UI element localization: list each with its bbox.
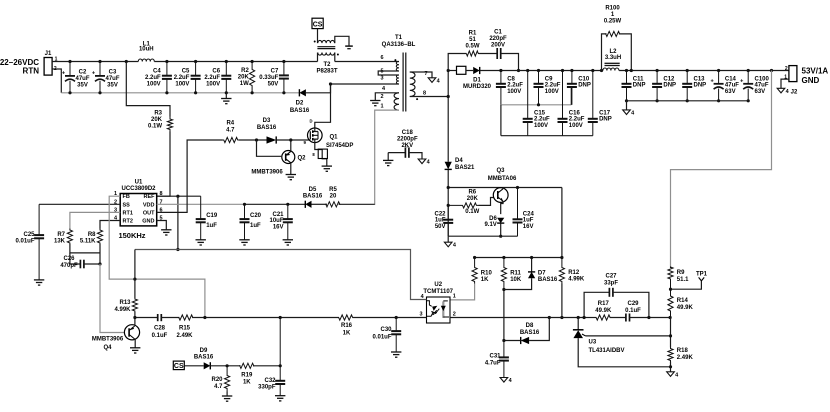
svg-text:BAS16: BAS16 [290,108,310,114]
svg-text:0.5W: 0.5W [465,43,479,49]
junction C11 rail [625,69,628,72]
label TP1 [696,271,708,277]
wire Q2 emitter [290,140,292,151]
diode D8 [521,337,529,344]
label D8 [520,323,540,336]
svg-text:U1: U1 [135,180,143,186]
svg-text:16V: 16V [523,224,534,230]
capacitor C26 [80,260,84,269]
capacitor C2 [62,62,75,93]
svg-text:100V: 100V [175,81,189,87]
svg-text:3: 3 [419,312,422,318]
label D3 [257,118,277,131]
svg-text:C7: C7 [271,69,279,75]
svg-text:2.2uF: 2.2uF [507,83,523,89]
svg-text:C12: C12 [663,76,675,82]
svg-text:47uF: 47uF [105,76,119,82]
svg-text:100V: 100V [534,123,548,129]
svg-text:DNP: DNP [694,83,707,89]
svg-text:8: 8 [160,191,163,197]
wire output cap bus [627,100,749,102]
svg-text:63V: 63V [755,89,766,95]
svg-text:1K: 1K [343,331,351,337]
junction C14 bot [717,99,720,102]
junction D8 riser top [548,316,551,319]
diode D5 [305,201,311,208]
label C12 [663,76,676,88]
label C15 [534,110,550,129]
wire collector line [448,187,562,189]
label R3 [148,111,163,130]
svg-text:R6: R6 [468,190,476,196]
wire main fb line B [161,317,179,319]
capacitor C18 [405,147,409,158]
wire OUT line [157,140,223,212]
capacitor C27 [609,288,613,297]
capacitor C21 [283,204,293,240]
svg-text:T2: T2 [323,62,331,68]
wire C10 corner [570,87,572,105]
svg-text:C29: C29 [627,301,639,307]
J1 pin 1 number [55,57,58,63]
junction C15 rail [526,69,529,72]
svg-text:10uH: 10uH [139,47,154,53]
svg-text:0.01uF: 0.01uF [15,239,34,245]
svg-text:2: 2 [453,312,456,318]
wire R4 to D3 [239,139,267,141]
svg-text:47uF: 47uF [725,83,739,89]
wire collector to divider rail [561,188,563,258]
svg-text:C16: C16 [569,110,581,116]
label R2 [238,68,250,87]
wire T1 pin5-pin3 link [378,71,399,75]
junction R9 bottom [669,288,672,291]
wire main fb line A [135,317,158,319]
capacitor C24 [513,188,523,237]
svg-text:4.99K: 4.99K [114,307,131,313]
shunt regulator U3 [573,330,586,338]
svg-text:CS: CS [174,363,184,370]
label Q2 part [251,170,283,176]
wire bottom cap bus [501,135,593,137]
junction R14 bottom [669,316,672,319]
svg-text:1uF: 1uF [435,218,446,224]
junction pin4 D2 [329,82,332,85]
label C32 [258,378,276,391]
svg-text:35V: 35V [77,82,88,88]
resistor R19 [240,363,254,368]
svg-text:R100: R100 [605,6,620,12]
svg-text:50V: 50V [268,82,279,88]
U2 pin4 number [421,294,425,300]
ground U1 [161,230,171,235]
svg-text:5.11K: 5.11K [80,239,96,245]
svg-text:R16: R16 [341,323,353,329]
svg-text:20: 20 [330,193,337,199]
Q1 body box [318,149,327,158]
svg-text:100V: 100V [507,89,521,95]
junction D8 left [502,339,505,342]
svg-text:49.9K: 49.9K [677,305,694,311]
svg-text:DNP: DNP [578,83,591,89]
svg-text:0.25W: 0.25W [604,18,622,24]
label C26 [60,256,78,269]
svg-text:C18: C18 [402,130,414,136]
svg-text:D: D [309,118,312,123]
label C8 [507,76,523,95]
wire CS to T2 [317,29,319,43]
junction R12 bottom [560,316,563,319]
svg-text:10K: 10K [510,277,522,283]
T1 phase dot primary [394,59,396,61]
svg-text:470pF: 470pF [60,263,78,269]
T1 pin5 number [380,69,383,75]
svg-text:MMBTA06: MMBTA06 [488,176,517,182]
ground C21 [283,240,293,245]
wire R13 top riser [134,250,136,299]
label R6 [467,190,479,202]
svg-text:C13: C13 [694,76,706,82]
label R6 watt [465,209,479,215]
svg-text:C19: C19 [206,213,218,219]
transformer T2 secondary winding [318,40,335,43]
svg-text:VDD: VDD [143,202,155,208]
wire R1 to C1 [479,53,498,55]
label C3 [105,70,119,89]
label C21 [269,212,284,230]
ground C19 [196,240,206,245]
ground Q4 [130,348,140,353]
svg-text:Q2: Q2 [298,156,307,162]
wire D8 left [504,340,521,342]
svg-text:33pF: 33pF [604,281,618,287]
label D5 [303,187,323,200]
wire main fb line F [584,317,596,319]
junction C11 bot [625,99,628,102]
ground C18 right [418,159,430,166]
svg-text:R5: R5 [329,187,337,193]
wire C6 ground stem [225,93,227,99]
junction C3 top [98,60,101,63]
svg-text:R11: R11 [510,271,521,277]
svg-text:20K: 20K [151,117,163,123]
wire D7 branch [531,258,533,272]
label C1 [489,30,507,49]
label Q1 part [326,143,353,149]
wire VDD rail end [245,203,306,205]
svg-text:51: 51 [469,37,476,43]
wire C18 left [388,152,405,154]
wire R18 bottom [670,362,672,372]
svg-text:4.7: 4.7 [226,128,235,134]
junction opto line tap [176,248,179,251]
svg-text:4.7uF: 4.7uF [485,361,501,367]
capacitor C4 [162,62,172,93]
svg-text:+: + [62,70,65,76]
svg-text:2.2uF: 2.2uF [545,83,561,89]
ground under C6 [221,99,231,104]
junction C5 bottom [194,91,197,94]
svg-text:1: 1 [380,104,383,110]
wire main fb line D [352,317,426,319]
svg-text:FB: FB [123,194,130,200]
T2 phase dot right [337,54,339,56]
resistor R1 [466,51,478,56]
junction U3 top [577,316,580,319]
svg-text:51.1: 51.1 [677,277,689,283]
resistor R2 [250,62,255,93]
svg-text:63V: 63V [725,89,736,95]
wire REF line to C19 [157,195,201,197]
wire R3 tap [126,62,170,117]
junction C9 rail [537,69,540,72]
label D1 [463,77,492,90]
label R16 [341,323,353,336]
svg-text:0.1W: 0.1W [465,209,479,215]
svg-text:1: 1 [453,294,456,300]
wire R13 to Q4 [134,312,136,325]
svg-text:47uF: 47uF [75,76,89,82]
wire RT2 line [100,221,120,229]
resistor R3 [167,117,172,132]
T1 pin8 number [423,91,426,97]
svg-text:P8283T: P8283T [316,68,337,74]
Q1 gate pin number [303,140,306,145]
wire C27 loop [584,292,609,317]
junction sense tap [770,69,773,72]
label C31 [485,354,501,367]
svg-text:C9: C9 [545,76,553,82]
label D7 [538,271,558,284]
svg-text:53V/1A: 53V/1A [802,67,829,76]
wire U1 GND [157,221,167,230]
capacitor C14 [710,71,723,101]
svg-text:20K: 20K [238,74,250,80]
wire R10 to opto pin1 [450,284,475,300]
capacitor C8 [496,71,506,105]
svg-text:DNP: DNP [599,117,612,123]
wire TP1 [671,281,702,289]
svg-text:C8: C8 [507,76,515,82]
capacitor C30 [391,318,401,353]
label C28 [152,326,168,339]
wire Q3 collector [502,188,504,189]
junction gate drive split [255,138,258,141]
svg-text:1K: 1K [243,380,251,386]
label R7 [54,232,66,245]
wire bias gnd stem [447,236,449,242]
resistor R17 [596,315,610,320]
J2 pin 2 number [785,66,788,72]
svg-text:R3: R3 [154,111,162,117]
wire C26 to R8 node [84,263,100,265]
svg-text:R7: R7 [57,232,65,238]
capacitor C17 [588,71,598,136]
svg-text:D5: D5 [309,187,317,193]
wire C8 drop [500,105,502,136]
T1 pin4 number [382,86,386,92]
label D6 [484,216,497,228]
wire R5 to T1 pin1 [339,203,375,205]
capacitor C15 [523,71,533,136]
label C19 [206,213,218,229]
junction snubber right [517,69,520,72]
U1 pin labels left [123,194,133,224]
wire D4 to collector line [447,170,449,236]
svg-text:C20: C20 [250,213,262,219]
junction R6 tap [447,204,450,207]
label R10 [481,271,493,284]
svg-text:SI7454DP: SI7454DP [326,143,353,149]
svg-text:TL431AIDBV: TL431AIDBV [589,348,625,354]
svg-text:+: + [710,78,713,84]
label C10 [578,76,591,88]
svg-text:C30: C30 [380,327,392,333]
wire Q1 drain stub [315,128,318,132]
wire rail to fuse [448,70,456,72]
svg-text:4.99K: 4.99K [568,277,585,283]
svg-text:C15: C15 [534,110,546,116]
svg-text:2KV: 2KV [401,143,413,149]
svg-text:D8: D8 [526,323,534,329]
capacitor C5 [191,62,201,93]
junction C17 rail [591,69,594,72]
diode D4 [445,162,452,170]
svg-text:QA3136–BL: QA3136–BL [382,42,416,48]
Q1 drain pin letter [309,118,312,123]
svg-text:R8: R8 [88,232,96,238]
svg-text:R9: R9 [677,270,685,276]
svg-text:9.1V: 9.1V [484,222,496,228]
wire T2 primary left leg [317,53,319,62]
diode D1 [473,67,480,74]
ground T1 pin2 [370,101,380,106]
wire R19 to C32 node [253,365,280,367]
svg-text:150KHz: 150KHz [118,231,145,240]
junction ref tap [669,334,672,337]
svg-text:C17: C17 [599,110,611,116]
svg-text:2.2uF: 2.2uF [534,117,550,123]
svg-text:RTN: RTN [23,67,40,76]
J2 pin 1 number [784,75,787,81]
svg-text:C1: C1 [494,30,502,36]
wire T1 pin1 to bias line [375,110,399,205]
wire R12 to main line [561,284,563,318]
svg-text:0.1W: 0.1W [148,123,162,129]
svg-text:C21: C21 [272,212,284,218]
svg-text:4.7: 4.7 [214,384,223,390]
wire J2 pin1 to ground [781,79,789,88]
svg-text:R2: R2 [241,68,249,74]
T1 pin2 number [380,94,383,100]
junction R13 line [133,316,136,319]
diode D9 [204,362,211,369]
wire output sense [671,71,772,269]
svg-text:C31: C31 [489,354,501,360]
svg-text:R20: R20 [211,377,223,383]
svg-text:Q1: Q1 [330,134,339,140]
svg-text:6: 6 [380,55,383,61]
junction L2 left [600,69,603,72]
svg-text:C4: C4 [153,69,161,75]
label C16 [569,110,585,129]
svg-text:3: 3 [380,76,383,82]
capacitor C25 [34,204,44,280]
resistor R15 [179,315,193,320]
connector J2 [789,66,798,96]
svg-text:D7: D7 [538,271,546,277]
resistor R100 [606,31,620,36]
resistor R5 [326,202,340,207]
connector J1 [44,51,52,75]
svg-text:2.2uF: 2.2uF [174,75,190,81]
testpoint TP1 [699,277,705,281]
resistor R11 [501,258,506,290]
U2 pin2 number [453,312,456,318]
svg-text:GND: GND [142,219,154,225]
wire R100 left leg [602,34,607,71]
ground bias [444,242,456,249]
junction C27 right [647,316,650,319]
junction C100 bot [747,99,750,102]
T1 aux winding [394,93,399,110]
wire VDD rail [157,203,245,205]
transistor Q2 [282,151,295,164]
transformer T2 primary winding [318,53,335,56]
U1 pin numbers right [160,191,163,221]
U1 pin numbers left [114,191,118,221]
svg-text:J2: J2 [791,89,798,95]
svg-text:MURD320: MURD320 [463,84,492,90]
T1 primary winding B [396,75,399,84]
junction C6 top [225,60,228,63]
svg-text:2.2uF: 2.2uF [204,75,220,81]
resistor R18 [668,348,673,362]
junction C3 bottom [98,91,101,94]
wire SS line [39,203,120,205]
junction FB main line [203,316,206,319]
capacitor C29 [626,314,630,322]
label C25 [15,232,35,245]
label R8 [80,232,96,245]
svg-text:R15: R15 [179,326,191,332]
junction FB R13 cross [133,278,136,281]
svg-text:CS: CS [313,22,323,29]
svg-text:R17: R17 [598,301,610,307]
svg-text:Q4: Q4 [103,345,112,351]
label U1 [135,180,143,186]
wire R3 to U1 REF [157,132,170,197]
wire U3 ref line [586,335,671,337]
resistor R7 [67,229,72,245]
svg-text:DNP: DNP [633,83,646,89]
ground C20 [239,240,249,245]
resistor R6 [448,203,478,208]
label R1 [465,31,479,50]
capacitor C6 [221,62,231,93]
wire bias bottom bus [448,235,517,237]
svg-text:GND: GND [802,76,820,85]
svg-text:+: + [740,78,743,84]
inductor L2 [603,68,619,71]
label C11 [633,76,646,88]
svg-text:0.33uF: 0.33uF [259,75,278,81]
label U3 [589,340,597,346]
CS box bottom [173,361,184,370]
svg-text:50V: 50V [435,224,446,230]
ground C18 left [383,160,393,165]
label C2 [75,70,89,89]
